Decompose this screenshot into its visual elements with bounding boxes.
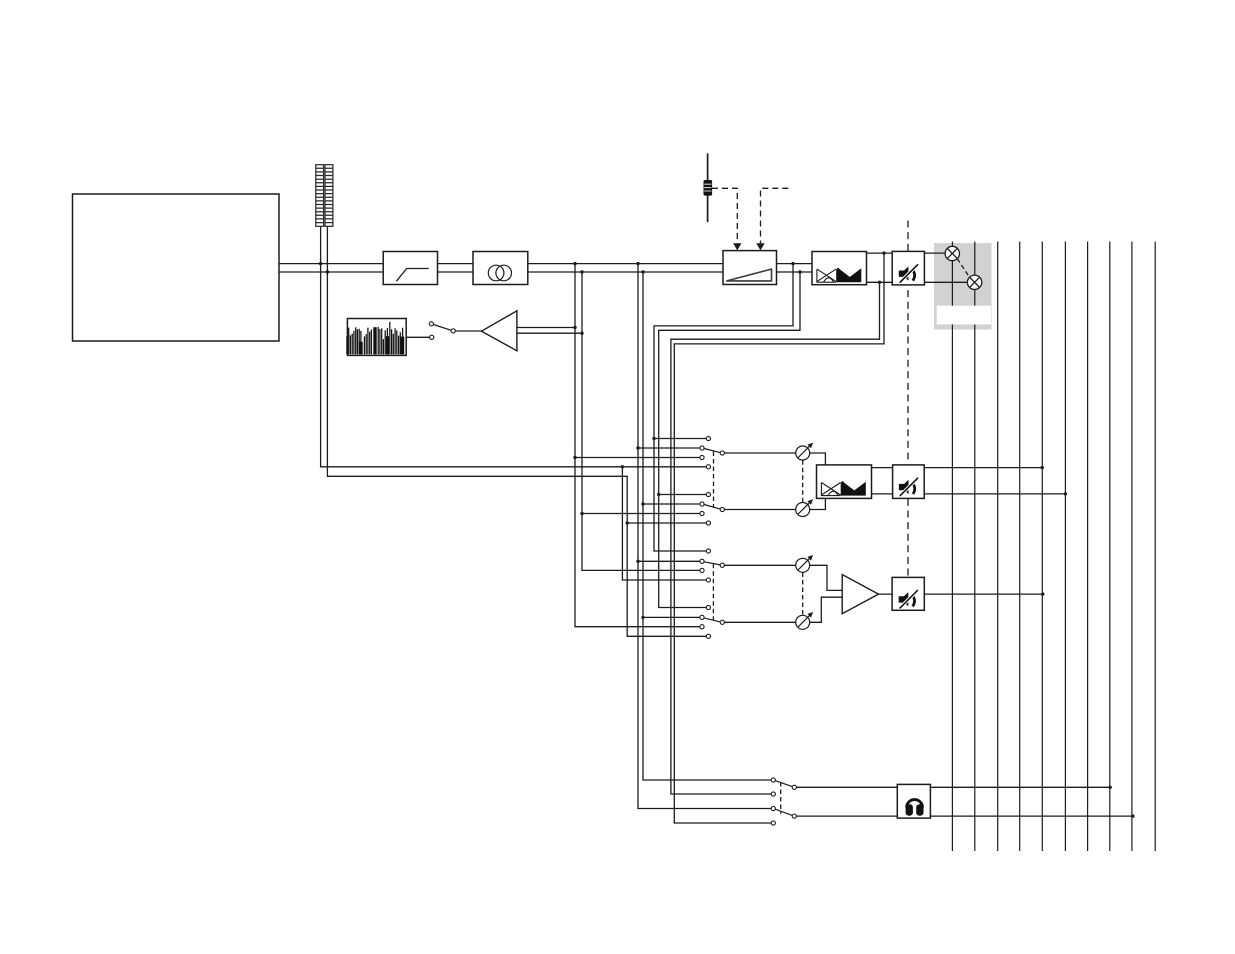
wire: branch vertical to aux2 row 4 xyxy=(622,467,706,580)
pan icon 1 xyxy=(817,269,836,282)
junction dot pan-out bottom tap xyxy=(878,281,881,284)
filter box xyxy=(383,252,437,285)
junction dot post-fader top tap xyxy=(791,262,794,265)
wire: meter tap right (down from main bottom, right, down to aux row 8) xyxy=(327,165,706,637)
junction dot aux1 row8 xyxy=(626,521,629,524)
wire: main bottom (input to channel chain) xyxy=(279,271,845,273)
wire: aux1 row 7 branch xyxy=(582,513,700,515)
fader (VCA) box xyxy=(723,251,777,285)
wire: aux1 row 5 branch xyxy=(659,494,707,496)
noise switch: pole xyxy=(451,329,455,333)
junction dot aux1 row2 xyxy=(636,446,639,449)
wire: main-bottom tap at x582 down to aux2 row 3 xyxy=(582,272,700,570)
dashed fader control from slider knob (left) xyxy=(712,188,737,243)
junction dot headphone R on bus 9 xyxy=(1131,814,1134,817)
fader ramp icon xyxy=(727,269,772,281)
transformer box xyxy=(473,252,528,285)
pot 2 (aux1 level) xyxy=(796,502,811,517)
bus vertical 7 xyxy=(1087,242,1089,852)
aux1 switch arm 2 xyxy=(704,505,720,510)
noise switch arm xyxy=(433,325,451,331)
wire: aux2 pot4 to sum amp xyxy=(810,597,843,622)
bus vertical 2 xyxy=(974,242,976,852)
junction dot aux1 row6 xyxy=(641,502,644,505)
dashed gang link aux2 selector xyxy=(712,564,714,620)
junction dot aux1 row3 xyxy=(573,456,576,459)
dashed link between bus assign crosspoints xyxy=(957,259,969,277)
wire: meter tap left (down from main top, right to aux row 4) xyxy=(321,165,707,467)
arrowhead fader control right xyxy=(756,243,764,250)
junction dot post-fader bottom tap xyxy=(798,270,801,273)
wire: switch pole to monitor amp xyxy=(455,330,481,332)
headphone switch arm 2 xyxy=(775,809,792,815)
aux2 selector terminals rows 1-8 xyxy=(706,549,710,553)
aux1 selector poles xyxy=(720,451,724,455)
pot 4 (aux2 level) xyxy=(796,614,811,629)
junction dot aux send 1 on bus 5 xyxy=(1041,466,1044,469)
junction dot aux send 2 on bus 6 xyxy=(1064,492,1067,495)
bus vertical 9 xyxy=(1131,242,1133,852)
wire: pan-out top tap down to headphone row 4 xyxy=(674,253,884,823)
junction dot main-top / meter tap xyxy=(319,262,322,265)
wire: aux pan to aux mute top xyxy=(872,467,1043,469)
mute icon 2 (speaker with slash) xyxy=(899,477,919,496)
dashed gang link aux2 pots xyxy=(802,573,804,616)
headphone selector terminals xyxy=(771,778,775,782)
junction dot main-top / x638 tap xyxy=(636,262,639,265)
wire: branch aux1 row 8 xyxy=(627,522,706,524)
wire: aux2 row 2 branch xyxy=(638,560,700,562)
fader slider knob xyxy=(704,180,713,196)
noise switch: floating contact xyxy=(429,322,433,326)
aux2 selector poles xyxy=(720,563,724,567)
wire: aux1 row 1 branch xyxy=(654,438,706,440)
wire: headphone pole 2 to phones box and bus xyxy=(797,815,1133,817)
headphone switch arm 1 xyxy=(775,781,792,787)
wire: aux1 switch pole 2 to pot 2 xyxy=(725,509,796,511)
junction dot aux1 row4 xyxy=(621,465,624,468)
mute icon 3 (speaker with slash) xyxy=(899,590,919,609)
monitor amp (left-pointing triangle) xyxy=(482,311,517,351)
filter icon (high-pass response) xyxy=(396,269,428,282)
dashed mute control line (behind boxes) xyxy=(907,221,909,578)
bus assign crosspoint 2 xyxy=(967,275,981,289)
aux sum amp (right-pointing triangle) xyxy=(842,575,878,614)
junction dot main-top / x575 tap xyxy=(573,262,576,265)
wire: aux2 pot3 to sum amp xyxy=(810,565,843,590)
wire: monitor amp output pair to main line taps xyxy=(517,327,575,329)
headphone box xyxy=(897,784,930,818)
bus assign crosspoint 1 xyxy=(945,246,959,260)
dashed gang link aux1 pots xyxy=(802,460,804,502)
bus vertical 8 xyxy=(1109,242,1111,852)
level meter ladder (left column) xyxy=(316,165,333,227)
noise switch: noise contact xyxy=(430,335,434,339)
wire: noise box to switch contact xyxy=(406,336,429,338)
bus vertical 6 xyxy=(1064,242,1066,852)
wire: main-top tap at x638 down to headphone row 3 xyxy=(638,264,771,809)
pot 1 (aux1 level) xyxy=(796,445,811,460)
junction dot main-bottom / x643 tap xyxy=(641,270,644,273)
headphone selector poles xyxy=(792,785,796,789)
aux1 switch arm 1 xyxy=(704,449,720,453)
bus vertical 1 xyxy=(951,242,953,852)
junction dot main-bottom / x582 tap xyxy=(580,270,583,273)
wire: main-bottom tap at x643 down to headphone row 1 xyxy=(643,272,771,780)
wire: post-fader top tap down-left-down to aux2 row 1 xyxy=(654,264,793,551)
aux mute box 2 xyxy=(893,465,925,499)
bus highlight band (gray) xyxy=(934,243,992,330)
wire: main top (input to channel chain) xyxy=(279,263,845,265)
junction dot aux2 row6 xyxy=(641,616,644,619)
pan box 1 xyxy=(812,252,867,285)
wire: post-fader bottom tap down-left-down to aux2 row 5 xyxy=(659,272,800,608)
channel mute box xyxy=(892,251,924,285)
bus vertical 4 xyxy=(1019,242,1021,852)
noise generator bars xyxy=(347,322,403,354)
wire: aux1 row 2 branch xyxy=(638,447,700,449)
wire: aux1 row 3 branch xyxy=(575,457,700,459)
wire: pan-out bottom tap down to headphone row 2 xyxy=(671,282,880,794)
wire: aux1 row 6 branch xyxy=(643,503,700,505)
wire: aux pan to aux mute bottom xyxy=(872,493,1066,495)
junction dot pan-out top tap xyxy=(882,251,885,254)
junction dot main-bottom / meter tap xyxy=(326,270,329,273)
aux mute box 3 xyxy=(892,577,924,610)
wire: aux2 switch pole 2 to pot 4 xyxy=(725,621,796,623)
fader slider track xyxy=(707,153,709,222)
input source box xyxy=(73,194,280,341)
arrowhead fader control left xyxy=(733,243,741,250)
wire: aux2 switch pole 1 to pot 3 xyxy=(725,564,796,566)
aux2 switch arm 1 xyxy=(704,562,720,565)
wire: pan output top going to channel mute and bus assign xyxy=(867,252,946,254)
headphones icon xyxy=(906,800,924,816)
junction dot headphone L on bus 8 xyxy=(1109,786,1112,789)
wire: main-top tap at x575 down to aux2 row 7 xyxy=(575,264,700,627)
level meter ladder (right column) xyxy=(325,165,333,227)
bus vertical 5 xyxy=(1041,242,1043,852)
wire: pan output bottom going to bus assign 2 xyxy=(867,281,968,283)
junction dot aux1 row5 xyxy=(657,493,660,496)
noise generator box xyxy=(347,319,406,356)
junction dot amp tap top xyxy=(573,326,576,329)
junction dot aux2 row2 xyxy=(636,560,639,563)
transformer icon (two interlocked circles) xyxy=(488,265,504,281)
dashed fader control (right, dangling) xyxy=(761,188,789,243)
wire: aux1 pot1 to pan box xyxy=(810,453,826,465)
pan icon 2 (aux) xyxy=(821,483,840,496)
mute icon 1 (speaker with slash) xyxy=(899,264,919,283)
wire: aux2 row 6 branch xyxy=(643,616,700,618)
bus vertical 10 xyxy=(1154,242,1156,852)
aux pan box 2 xyxy=(817,465,872,499)
bus label plate (white) xyxy=(937,306,991,325)
dashed gang link aux1 selector xyxy=(713,452,715,508)
dashed gang link headphone selector xyxy=(780,782,782,814)
junction dot amp tap bottom xyxy=(580,332,583,335)
junction dot aux1 row7 xyxy=(580,512,583,515)
pot 3 (aux2 level) xyxy=(796,557,811,572)
aux1 selector terminals rows 1-8 xyxy=(700,436,797,825)
wire: headphone pole 1 to phones box and bus xyxy=(797,786,1111,788)
wire: aux1 pot2 to pan box xyxy=(810,498,826,509)
junction dot aux1 row1 xyxy=(652,437,655,440)
junction dot aux send 3 on bus 5 xyxy=(1041,592,1044,595)
bus vertical 3 xyxy=(997,242,999,852)
wire: sum amp output to aux mute 3 and bus xyxy=(879,593,1043,595)
wire: aux1 switch pole 1 to pot 1 xyxy=(725,452,796,454)
aux2 switch arm 2 xyxy=(704,618,720,622)
